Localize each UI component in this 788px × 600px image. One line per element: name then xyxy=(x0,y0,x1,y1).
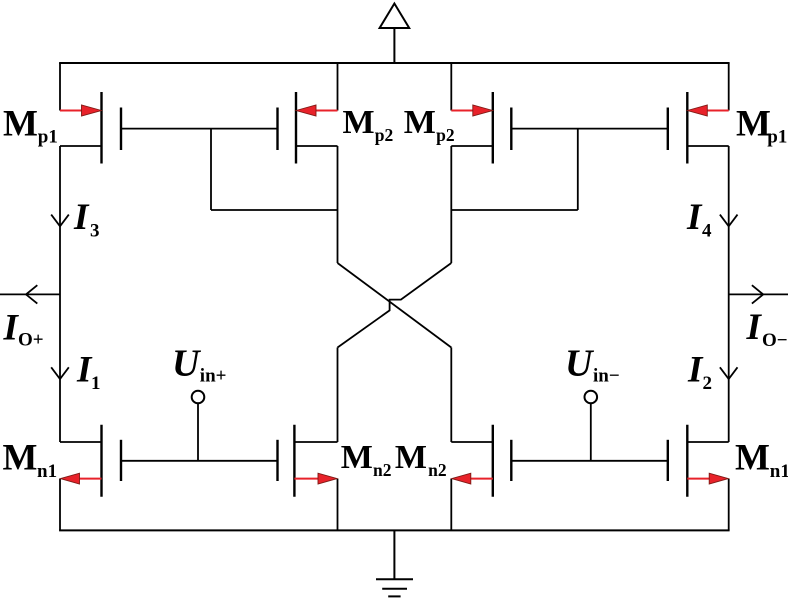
svg-text:p1: p1 xyxy=(767,127,787,148)
wire Mn2 right source to ground rail xyxy=(450,479,452,531)
wire cross bottom left vertical to Mn2 drain xyxy=(337,348,339,443)
transistor Mp1 right xyxy=(668,92,788,164)
wire cross diagonal right-to-left with hop xyxy=(338,263,452,348)
current arrow I3 xyxy=(51,197,99,242)
svg-text:p2: p2 xyxy=(375,125,393,145)
svg-text:p2: p2 xyxy=(436,125,454,145)
wire gate line bottom right pair xyxy=(511,460,668,462)
transistor Mp1 left xyxy=(3,92,121,164)
svg-text:O+: O+ xyxy=(18,330,44,351)
svg-text:n2: n2 xyxy=(428,460,446,480)
wire gate line bottom left pair xyxy=(121,460,278,462)
svg-text:M: M xyxy=(404,104,436,141)
svg-text:I: I xyxy=(3,308,20,349)
svg-text:M: M xyxy=(3,104,38,145)
svg-text:O−: O− xyxy=(762,330,788,351)
wire Mp2 left source from rail xyxy=(337,63,339,111)
wire right edge: VDD to Mp1 source xyxy=(728,63,730,111)
transistor Mn1 left xyxy=(3,425,122,497)
wire right edge: Mp1 drain to Mn1 drain (output node) xyxy=(728,146,730,442)
svg-text:M: M xyxy=(735,438,770,479)
wire bottom rail xyxy=(59,529,730,531)
wire Mp2 right drain down to cross xyxy=(450,146,452,263)
svg-text:I: I xyxy=(686,197,703,238)
wire cross diagonal left-to-right xyxy=(338,263,452,348)
svg-text:p1: p1 xyxy=(38,127,58,148)
svg-text:in+: in+ xyxy=(200,366,227,387)
power VDD triangle xyxy=(380,4,410,64)
input terminal Uin- xyxy=(565,343,620,461)
transistor Mp2 right xyxy=(404,92,512,164)
wire Mp2 right source from rail xyxy=(450,63,452,111)
svg-text:M: M xyxy=(3,438,38,479)
svg-text:n1: n1 xyxy=(37,461,57,482)
wire gate line top right pair xyxy=(511,128,668,130)
svg-text:M: M xyxy=(343,104,375,141)
transistor Mn1 right xyxy=(668,425,788,497)
wire top rail xyxy=(59,62,730,64)
input terminal Uin+ xyxy=(172,343,226,461)
svg-text:I: I xyxy=(73,197,90,238)
wire left edge: Mn1 source to ground rail xyxy=(59,479,61,531)
wire output right xyxy=(729,293,788,295)
svg-text:n1: n1 xyxy=(770,461,788,482)
wire Mn2 left source to ground rail xyxy=(337,479,339,531)
transistor Mp2 left xyxy=(278,92,394,164)
wire gate-drain connector horizontal top left xyxy=(211,209,338,211)
svg-text:2: 2 xyxy=(703,373,713,394)
svg-text:4: 4 xyxy=(702,221,712,242)
output arrow IO- xyxy=(746,285,788,351)
svg-text:M: M xyxy=(736,104,771,145)
wire gate line top left pair xyxy=(121,128,278,130)
svg-text:3: 3 xyxy=(90,221,100,242)
ground xyxy=(376,530,413,596)
wire left edge: Mp1 drain to Mn1 drain (output node) xyxy=(59,146,61,442)
svg-text:1: 1 xyxy=(91,373,101,394)
wire cross bottom right vertical to Mn2 drain xyxy=(450,348,452,443)
current arrow I2 xyxy=(687,350,738,395)
wire Mp2 left drain down to cross xyxy=(337,146,339,263)
wire gate-drain connector drop top left xyxy=(210,129,212,210)
transistor Mn2 right xyxy=(395,425,511,497)
svg-text:in−: in− xyxy=(593,366,620,387)
wire gate-drain connector drop top right xyxy=(577,129,579,210)
svg-text:I: I xyxy=(687,350,704,391)
transistor Mn2 left xyxy=(278,425,392,497)
wire left edge: VDD to Mp1 source xyxy=(59,63,61,111)
wire right edge: Mn1 source to ground rail xyxy=(728,479,730,531)
svg-text:I: I xyxy=(746,307,763,348)
output arrow IO+ xyxy=(3,285,44,350)
svg-text:n2: n2 xyxy=(373,460,391,480)
svg-text:U: U xyxy=(565,343,595,385)
wire output left xyxy=(0,293,60,295)
current arrow I1 xyxy=(51,350,100,395)
svg-text:M: M xyxy=(341,439,373,476)
current arrow I4 xyxy=(686,197,738,242)
svg-text:U: U xyxy=(172,343,202,385)
svg-text:M: M xyxy=(395,439,427,476)
wire gate-drain connector horizontal top right xyxy=(451,209,578,211)
